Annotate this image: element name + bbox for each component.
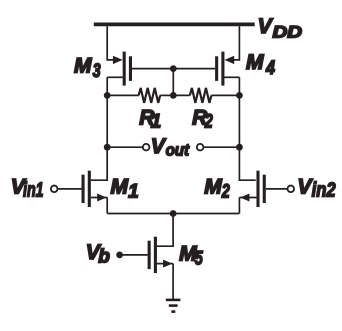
node left resistor junction (104, 92, 111, 99)
node Vb terminal (116, 252, 123, 259)
svg-text:5: 5 (195, 248, 203, 269)
svg-text:1: 1 (128, 181, 139, 202)
label R1 (139, 107, 161, 133)
wire right rail to Vout row (238, 95, 240, 147)
wire M2 source down (238, 198, 240, 214)
svg-text:2: 2 (221, 181, 230, 202)
svg-text:in2: in2 (312, 180, 336, 202)
wire M1 source down (106, 198, 108, 214)
resistor R1 (139, 88, 161, 103)
wire M5 source to ground (172, 264, 174, 300)
wire R2 to right node (211, 94, 239, 96)
svg-text:DD: DD (273, 24, 303, 42)
transistor M1 (83, 171, 107, 207)
wire right rail to M2 drain (239, 147, 255, 180)
label M1 (111, 175, 139, 202)
transistor M3 (107, 52, 130, 86)
transistor M2 (239, 171, 264, 207)
svg-text:b: b (98, 247, 110, 268)
node right Vout junction (236, 144, 243, 151)
node tail junction (170, 210, 177, 217)
svg-text:out: out (166, 140, 191, 159)
svg-text:2: 2 (204, 112, 213, 133)
label Vin1 (11, 176, 44, 202)
wire left node to Vout terminal (107, 146, 143, 148)
svg-text:M: M (246, 51, 264, 74)
svg-text:4: 4 (265, 58, 275, 79)
terminal Vout right (197, 144, 204, 151)
node gate junction (170, 65, 177, 72)
wire left node to R1 (107, 94, 139, 96)
label M5 (179, 242, 203, 269)
wire M4 drain to node (238, 77, 240, 95)
svg-text:3: 3 (93, 61, 101, 82)
svg-text:V: V (151, 135, 167, 158)
svg-text:in1: in1 (23, 179, 44, 201)
label M2 (204, 175, 230, 202)
ground (166, 300, 181, 312)
svg-text:M: M (204, 175, 222, 198)
svg-text:1: 1 (151, 112, 162, 133)
label Vout (151, 135, 190, 160)
wire R1 to midpoint (160, 94, 173, 96)
wire tail row (107, 213, 239, 215)
wire tail to M5 drain (157, 214, 173, 247)
wire midpoint to R2 (173, 94, 190, 96)
wire Vb to M5 gate (120, 254, 148, 256)
wire Vin1 to M1 gate (58, 188, 81, 190)
label R2 (192, 107, 213, 133)
wire Vout terminal to right node (203, 146, 239, 148)
wire M2 gate to Vin2 (266, 188, 288, 190)
terminal Vout left (143, 144, 150, 151)
wire M4 source from rail (232, 26, 240, 60)
VDD rail (94, 22, 255, 26)
label Vb (86, 241, 110, 268)
terminal Vin1 (51, 186, 58, 193)
svg-text:V: V (258, 15, 274, 38)
wire left rail to Vout row (106, 95, 108, 147)
wire gate link M3-M4 (132, 68, 215, 70)
svg-text:M: M (74, 55, 92, 78)
wire gate node to resistor midpoint (172, 69, 174, 96)
wire left rail to M1 drain (91, 147, 107, 180)
node resistor midpoint (170, 92, 177, 99)
resistor R2 (190, 88, 212, 103)
svg-text:M: M (111, 175, 129, 198)
transistor M5 (149, 237, 173, 273)
wire M3 drain to node (106, 77, 108, 95)
transistor M4 (217, 52, 240, 86)
label M4 (246, 51, 275, 79)
node left Vout junction (104, 144, 111, 151)
label M3 (74, 55, 101, 83)
label Vin2 (297, 175, 335, 201)
wire M3 source from rail (107, 26, 115, 60)
node right resistor junction (236, 92, 243, 99)
terminal Vin2 (288, 186, 295, 193)
label VDD (258, 15, 302, 42)
